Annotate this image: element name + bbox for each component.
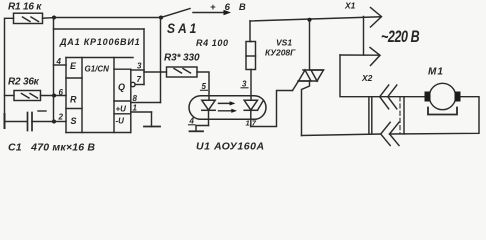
- svg-text:X2: X2: [361, 73, 373, 83]
- pin 4 E: [54, 57, 67, 66]
- svg-text:E: E: [70, 61, 77, 71]
- op-amp U1 timer DA1 KR1006VI1 outer box: [54, 18, 145, 122]
- connector X2 link lines: [369, 97, 404, 134]
- svg-text:-U: -U: [116, 117, 125, 126]
- LED of U1: [202, 100, 215, 125]
- svg-text:SA1: SA1: [167, 20, 199, 36]
- wire R3 to optocoupler LED pin 5: [197, 72, 209, 100]
- wire R4 to optocoupler pin 3: [250, 70, 252, 101]
- wire pin8 riser to top rail: [160, 18, 162, 103]
- svg-text:VS1: VS1: [276, 38, 292, 48]
- connector X1 link line: [363, 17, 365, 56]
- wire top rail to SA1: [54, 17, 161, 19]
- svg-text:R4 100: R4 100: [196, 38, 229, 48]
- svg-text:4: 4: [56, 57, 62, 66]
- photothyristor of U1: [244, 100, 263, 126]
- svg-text:+U: +U: [116, 105, 127, 114]
- svg-text:3: 3: [242, 80, 247, 89]
- resistor R2: [8, 77, 41, 101]
- wire R2 left lead: [5, 95, 15, 97]
- node junction pin6: [52, 94, 56, 98]
- DA1 function box: [66, 58, 133, 133]
- connector X2 lower pin chevrons: [381, 122, 399, 145]
- svg-text:2: 2: [58, 113, 64, 122]
- resistor R3: [144, 53, 200, 78]
- capacitor C1: [5, 111, 96, 154]
- transistor VS1 triac: [265, 20, 324, 136]
- wire mains rail to X1 top: [250, 17, 381, 21]
- svg-text:1: 1: [133, 104, 138, 113]
- optocoupler U1 body: [189, 96, 266, 120]
- wire opto cathode to triac gate: [251, 91, 293, 127]
- connector X1 pin 1: [344, 1, 382, 28]
- pin 1 -U: [131, 104, 152, 113]
- svg-text:7: 7: [137, 75, 142, 84]
- svg-text:U1 АОУ160А: U1 АОУ160А: [196, 141, 265, 153]
- switch SA1: [161, 9, 231, 37]
- svg-text:4: 4: [189, 117, 195, 126]
- svg-text:М1: М1: [428, 67, 444, 78]
- svg-text:C1 470 мк×16 В: C1 470 мк×16 В: [8, 142, 95, 154]
- DA1 output column Q +U -U: [114, 69, 131, 132]
- wire X1 pin2 down to X2 row: [340, 55, 426, 97]
- resistor R4: [196, 21, 256, 70]
- wire R1 left lead to left rail: [5, 18, 14, 121]
- svg-text:S: S: [71, 116, 77, 126]
- svg-text:8: 8: [133, 94, 138, 103]
- light arrows of U1: [219, 101, 238, 113]
- node junction SA1/pin8 riser: [159, 16, 163, 20]
- connector X2 upper pin chevrons: [361, 73, 397, 109]
- svg-text:~220 В: ~220 В: [381, 29, 419, 47]
- svg-text:+ 6 В: + 6 В: [210, 2, 249, 13]
- connector X1 pin 2: [340, 48, 380, 66]
- wire LED cathode pin 4 to ground: [189, 117, 209, 132]
- svg-text:R1 16 к: R1 16 к: [8, 2, 42, 13]
- node junction pin2/C1: [52, 120, 56, 124]
- svg-text:ДА1 КР1006ВИ1: ДА1 КР1006ВИ1: [59, 37, 140, 47]
- svg-text:Q: Q: [118, 82, 125, 92]
- motor M1: [425, 67, 461, 115]
- svg-text:5: 5: [202, 82, 207, 91]
- pin 2 S: [54, 113, 66, 122]
- svg-text:КУ208Г: КУ208Г: [265, 48, 296, 58]
- wire R1 right lead: [43, 17, 55, 20]
- svg-text:6: 6: [59, 88, 64, 97]
- svg-text:X1: X1: [344, 1, 356, 11]
- pin 8 +U: [131, 94, 161, 103]
- svg-text:R2 36к: R2 36к: [8, 77, 40, 88]
- node junction R1/DA1: [52, 16, 56, 20]
- pin 7 output bubble: [131, 75, 144, 87]
- svg-text:3: 3: [137, 62, 142, 71]
- ground at pin 1: [144, 112, 160, 127]
- wire X2 lower to motor return: [390, 97, 480, 134]
- node junction triac anode: [308, 18, 312, 22]
- wire R2 right lead to pin 6: [41, 95, 67, 97]
- pin 3 output: [131, 62, 144, 71]
- svg-text:G1/CN: G1/CN: [85, 65, 110, 74]
- svg-text:R3* 330: R3* 330: [164, 53, 200, 64]
- resistor R1: [8, 2, 43, 24]
- svg-text:R: R: [70, 95, 77, 105]
- wire bottom rail triac to X2: [302, 134, 381, 136]
